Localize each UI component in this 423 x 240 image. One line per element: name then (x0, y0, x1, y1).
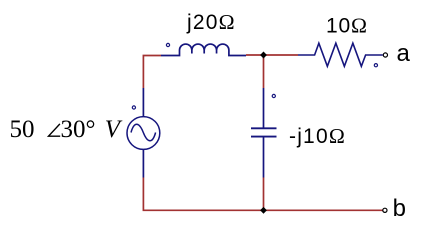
svg-text:b: b (393, 195, 406, 222)
svg-text:-j10Ω: -j10Ω (289, 124, 345, 148)
svg-text:V: V (105, 116, 123, 143)
svg-text:10Ω: 10Ω (326, 14, 367, 38)
svg-text:j20Ω: j20Ω (186, 10, 235, 34)
svg-text:a: a (397, 40, 411, 67)
svg-text:50: 50 (10, 116, 35, 143)
svg-text:30°: 30° (61, 116, 96, 143)
